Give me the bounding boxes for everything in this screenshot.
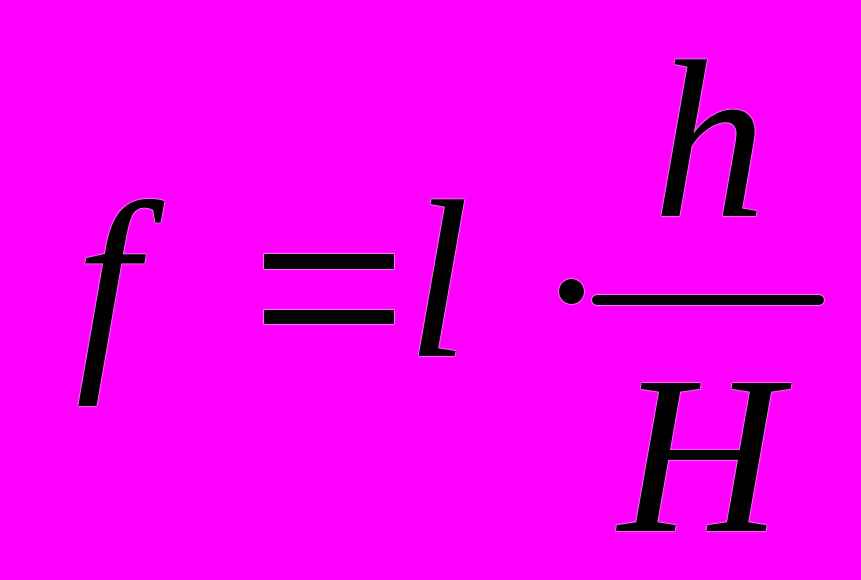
numerator h [653, 27, 766, 253]
symbol f [76, 169, 139, 395]
multiplication dot [559, 279, 584, 305]
denominator H [618, 342, 781, 568]
symbol l [407, 167, 470, 393]
equals sign top bar [264, 254, 394, 269]
fraction bar [592, 295, 824, 305]
equals sign bottom bar [264, 310, 394, 324]
